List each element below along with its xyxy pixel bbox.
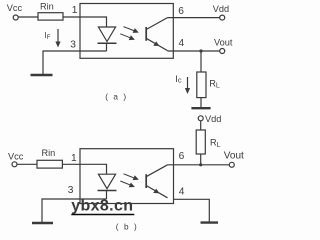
svg-text:Vout: Vout bbox=[224, 150, 244, 161]
terminal Vcc (a) bbox=[13, 15, 18, 20]
svg-text:RL: RL bbox=[209, 78, 220, 89]
wire pin 1 to LED anode (a) bbox=[80, 17, 107, 27]
wire RL to junction (b) bbox=[200, 154, 202, 165]
svg-text:3: 3 bbox=[68, 185, 74, 196]
svg-text:Vout: Vout bbox=[214, 37, 233, 47]
svg-text:ybx8.cn: ybx8.cn bbox=[71, 198, 133, 215]
light arrow 1 (b) bbox=[124, 174, 139, 180]
resistor Rin (b) bbox=[37, 160, 62, 168]
light arrow 2 (b) bbox=[120, 181, 135, 187]
terminal Vout (b) bbox=[229, 162, 234, 167]
LED D2 (b) bbox=[98, 174, 117, 199]
wire Rin to pin 1 (a) bbox=[63, 16, 80, 18]
wire Vcc to Rin (a) bbox=[18, 16, 38, 18]
svg-text:IF: IF bbox=[45, 31, 51, 41]
svg-text:Vcc: Vcc bbox=[7, 3, 23, 13]
opto-coupler box U1 (a) bbox=[80, 4, 173, 59]
ground right (a) bbox=[191, 107, 210, 109]
wire Rin to pin 1 (b) bbox=[62, 163, 80, 165]
svg-text:Vcc: Vcc bbox=[8, 151, 24, 161]
watermark ybx8.cn bbox=[71, 198, 134, 215]
svg-text:Vdd: Vdd bbox=[213, 4, 229, 14]
svg-text:1: 1 bbox=[71, 153, 77, 164]
arrow IF (a) bbox=[55, 29, 60, 48]
svg-text:Vdd: Vdd bbox=[205, 114, 221, 124]
svg-text:6: 6 bbox=[178, 6, 184, 17]
terminal Vcc (b) bbox=[12, 162, 17, 167]
svg-text:3: 3 bbox=[70, 39, 76, 50]
wire pin 4 to ground (b) bbox=[174, 199, 210, 222]
light arrow 2 (a) bbox=[120, 34, 135, 40]
junction node (a) bbox=[199, 49, 202, 52]
ground left (a) bbox=[31, 74, 53, 76]
phototransistor Q2 (b) bbox=[146, 165, 167, 198]
junction node (b) bbox=[199, 163, 202, 166]
terminal Vdd (b) bbox=[198, 116, 203, 121]
terminal Vout (a) bbox=[220, 49, 225, 54]
wire pin 6 to Vdd (a) bbox=[168, 17, 220, 19]
wire Vdd to RL (b) bbox=[200, 121, 202, 130]
wire RL to ground (a) bbox=[200, 98, 202, 107]
ground left (b) bbox=[32, 222, 53, 224]
circuit (b) bbox=[12, 116, 234, 223]
circuit (a) bbox=[13, 4, 225, 109]
svg-text:Rin: Rin bbox=[40, 1, 54, 11]
opto-coupler box U2 (b) bbox=[80, 149, 174, 204]
svg-text:6: 6 bbox=[179, 151, 185, 162]
svg-text:RL: RL bbox=[210, 138, 221, 150]
svg-text:( a ): ( a ) bbox=[105, 92, 128, 101]
wire pin 6 to Vout (b) bbox=[168, 164, 230, 166]
svg-text:4: 4 bbox=[179, 187, 185, 198]
wire Vcc to Rin (b) bbox=[17, 163, 37, 165]
wire junction to RL (a) bbox=[200, 51, 202, 72]
svg-text:Rin: Rin bbox=[42, 148, 56, 158]
LED D1 (a) bbox=[98, 27, 117, 51]
wire pin 1 to LED anode (b) bbox=[80, 164, 107, 174]
svg-text:1: 1 bbox=[72, 5, 78, 16]
phototransistor Q1 (a) bbox=[146, 18, 167, 51]
wire pin 3 (b) bbox=[42, 199, 107, 222]
resistor RL (a) bbox=[197, 72, 206, 98]
svg-text:Ic: Ic bbox=[175, 74, 182, 85]
ground right (b) bbox=[201, 221, 219, 223]
svg-text:4: 4 bbox=[179, 38, 185, 49]
light arrow 1 (a) bbox=[124, 27, 139, 33]
resistor RL (b) bbox=[196, 130, 205, 154]
wire pin 3 (a) bbox=[43, 51, 107, 74]
svg-text:( b ): ( b ) bbox=[116, 223, 139, 232]
terminal Vdd (a) bbox=[220, 15, 225, 20]
wire pin 4 to Vout (a) bbox=[168, 50, 220, 52]
arrow Ic (a) bbox=[185, 77, 190, 94]
resistor Rin (a) bbox=[38, 13, 63, 20]
